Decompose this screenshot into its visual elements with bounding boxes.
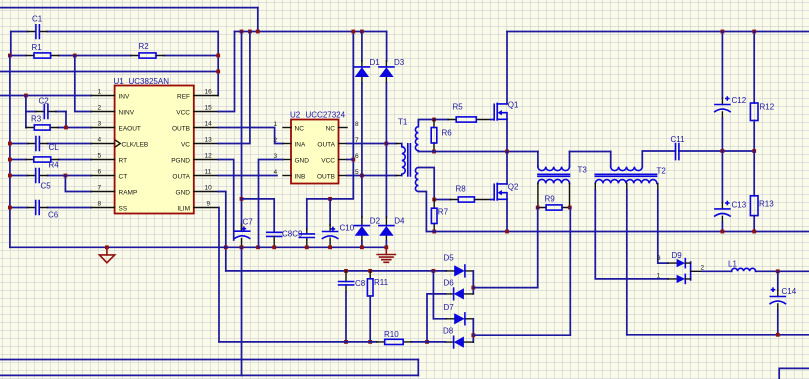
node: junction y=198.9 / C10 (328, 197, 332, 201)
node: junction INV / C2-R3 branch (24, 94, 28, 98)
U1 pin 10 GND (176, 184, 219, 196)
svg-text:Q2: Q2 (508, 182, 519, 191)
svg-text:15: 15 (205, 104, 213, 111)
svg-text:NC: NC (295, 125, 305, 132)
transformer T2 (595, 152, 666, 191)
svg-text:R9: R9 (545, 194, 556, 203)
svg-text:R6: R6 (442, 128, 453, 137)
wire: bottom rail B y=375.4 (0, 374, 418, 376)
node: junction L1 out / C14 (776, 269, 780, 273)
wire: D3 anode down to OUTA net (385, 83, 387, 144)
transistor Q2 (494, 182, 519, 200)
diode D6 (444, 279, 474, 300)
capacitor C13 (715, 151, 747, 232)
svg-text:INA: INA (295, 141, 307, 148)
svg-text:OUTB: OUTB (317, 173, 335, 180)
wire: snubber return y=341.9 (219, 341, 445, 343)
node: junction bus / Q1-Q2 (505, 150, 509, 154)
wire: T2 centre tap drop (626, 190, 628, 335)
U1 pin 7 RAMP (91, 184, 137, 196)
U1 pin 13 VC (181, 136, 218, 148)
wire: C1 left drop to R1 node (10, 32, 12, 56)
node: junction rail/R4 (8, 158, 12, 162)
node: junction rail/C5 (8, 174, 12, 178)
node: junction rail / x=241.5 riser (240, 30, 244, 34)
resistor R13 (750, 151, 774, 232)
node: junction y270.9/R11 (368, 269, 372, 273)
wire: ground/bypass bus y=247.3 (10, 246, 386, 248)
node: junction D4 / ground bus (384, 245, 388, 249)
node: junction y270.9/C8b (344, 269, 348, 273)
svg-text:UCC27324: UCC27324 (306, 111, 346, 120)
T1 secondary lower winding (415, 168, 418, 192)
node: junction bus/gnd triangle (105, 245, 109, 249)
T2 primary winding (610, 152, 612, 167)
svg-text:UC3825AN: UC3825AN (129, 77, 170, 86)
wire: PGND pin12 drop x=233.7 (218, 160, 234, 241)
svg-text:U2: U2 (290, 111, 301, 120)
node: junction bus231/R13 (752, 230, 756, 234)
wire: bus151 T3 to T2 (570, 151, 611, 153)
capacitor C9 (C8C9 pair right) (299, 199, 314, 247)
svg-text:GND: GND (295, 157, 310, 164)
node: junction OUTB / D1-D2 chain (360, 174, 364, 178)
T3 primary winding (537, 152, 539, 167)
svg-text:10: 10 (205, 184, 213, 191)
capacitor C10 (322, 199, 354, 247)
capacitor C8b (snubber) (339, 271, 366, 342)
wire: OUTA pin11 to U2 INB (218, 175, 277, 177)
node: junction +rail / D1 chain (360, 30, 364, 34)
T3 core (538, 174, 570, 176)
wire: bypass riser x=241.5 (rail to C7) (241, 32, 243, 231)
T1 secondary upper winding (415, 122, 418, 152)
svg-text:C8: C8 (355, 279, 366, 288)
diode D4 (379, 216, 405, 247)
node: junction D6 drop / y341.9 (425, 340, 429, 344)
svg-text:CT: CT (119, 173, 128, 180)
U2 pin 3 GND (274, 153, 310, 164)
svg-text:2: 2 (98, 104, 102, 111)
wire: ILIM pin9 drop x=219 (218, 208, 220, 342)
wire: C2/R3 left vertical x=25.9 (25, 96, 27, 128)
U2 pin 5 OUTB (317, 169, 359, 180)
capacitor C5 (10, 169, 91, 191)
svg-text:GND: GND (176, 189, 191, 196)
svg-text:6: 6 (355, 153, 359, 160)
U1 pin 12 PGND (171, 152, 218, 164)
wire: bypass branch y=198.9 to C8 (242, 199, 275, 232)
svg-text:L1: L1 (728, 259, 737, 268)
svg-text:VC: VC (181, 141, 190, 148)
wire: Q1 source drop to bus (506, 119, 508, 151)
svg-text:D1: D1 (370, 58, 381, 67)
svg-text:C12: C12 (732, 96, 747, 105)
diode D2 (354, 216, 380, 247)
node: junction OUTA / D3-D4 chain (384, 142, 388, 146)
node: junction D2 / ground bus (360, 245, 364, 249)
svg-text:C10: C10 (340, 224, 355, 233)
wire: U2 GND drop to bus (259, 160, 284, 248)
resistor R7 (431, 200, 448, 232)
T3 secondary winding (538, 179, 570, 183)
node: junction R9 right / T3 (568, 206, 572, 210)
svg-text:RAMP: RAMP (119, 189, 138, 196)
node: junction bus231/C13 (721, 230, 725, 234)
U1 pin 8 SS (91, 200, 128, 212)
U2 pin 2 INA (274, 137, 307, 148)
wire: U2 VCC stub to riser (347, 159, 353, 161)
node: junction bus/C7 (240, 245, 244, 249)
capacitor C6 (10, 201, 91, 220)
resistor R2 (75, 42, 218, 58)
svg-text:D3: D3 (394, 58, 405, 67)
node: junction R9 left / T3 (536, 206, 540, 210)
capacitor C7 (235, 217, 254, 247)
wire: D5/D6 link x=473.3 (472, 271, 474, 294)
node: junction C14 / lower rail (776, 333, 780, 337)
node: junction VCC riser / U2 pin6 (351, 158, 355, 162)
capacitor C11 (671, 135, 686, 160)
wire: output lower rail y=334.8 (627, 334, 809, 336)
svg-text:D7: D7 (444, 303, 455, 312)
node: junction y270.9/D7 branch (432, 269, 436, 273)
svg-text:14: 14 (205, 120, 213, 127)
wire: U2 OUTB to T1 primary bottom (347, 175, 396, 177)
U1 pin 16 REF (177, 88, 218, 100)
svg-text:T1: T1 (398, 117, 408, 126)
wire: T2 sec right to D9 pin3 (658, 190, 668, 263)
wire: VC pin13 riser x=249.9 (218, 32, 250, 144)
node: junction bus/U2 GND (256, 245, 260, 249)
U1 pin 11 OUTA (172, 168, 218, 180)
wire: REF vertical x=218.2 (C1 to pin16) (217, 32, 219, 96)
svg-text:OUTA: OUTA (317, 141, 335, 148)
svg-text:R8: R8 (456, 184, 467, 193)
svg-text:D9: D9 (672, 251, 683, 260)
node: junction rail/C6 (8, 206, 12, 210)
node: junction R1 left / left rail (8, 54, 12, 58)
T2 core (595, 174, 656, 176)
node: junction bus/C8 (272, 245, 276, 249)
U2 pin 8 NC (326, 121, 359, 132)
resistor R6 (431, 120, 452, 152)
resistor R10 (377, 330, 411, 344)
node: junction R6 bottom / bus (432, 150, 436, 154)
wire: Q2 drain riser to bus151 (506, 152, 508, 184)
node: junction rail/CL (8, 142, 12, 146)
svg-text:9: 9 (207, 200, 211, 207)
svg-text:T2: T2 (657, 166, 667, 175)
U1 pin 9 ILIM (177, 200, 218, 212)
svg-text:INV: INV (119, 93, 131, 100)
svg-text:U1: U1 (114, 77, 125, 86)
node: junction R1/R2/pin2 feed (73, 54, 77, 58)
svg-text:R10: R10 (384, 330, 399, 339)
svg-text:C2: C2 (39, 96, 50, 105)
wire: pin1 INV net from left edge (0, 95, 91, 97)
svg-text:C13: C13 (732, 200, 747, 209)
U2 pin 7 OUTA (317, 137, 359, 148)
svg-text:5: 5 (98, 152, 102, 159)
svg-text:R13: R13 (759, 199, 774, 208)
node: junction x=241.5 / y=198.9 branch (240, 197, 244, 201)
svg-text:Q1: Q1 (508, 100, 519, 109)
capacitor C14 (770, 271, 797, 335)
node: junction C5 right / RAMP branch (64, 174, 68, 178)
node: junction bus151/C12 (721, 149, 725, 153)
svg-text:11: 11 (205, 168, 212, 175)
svg-text:D4: D4 (394, 216, 405, 225)
wire: bottom rail A y=359.5 (0, 359, 418, 361)
node: junction bus/C9 (305, 245, 309, 249)
svg-text:D2: D2 (370, 216, 381, 225)
svg-text:1: 1 (98, 88, 102, 95)
svg-text:C11: C11 (671, 135, 686, 144)
wire: T2 sec left to D9 pin1 (595, 190, 668, 279)
svg-text:NINV: NINV (119, 109, 135, 116)
transformer T3 (538, 152, 587, 208)
node: junction REF/71.5 net (216, 70, 220, 74)
node: junction bus151/R12 (752, 149, 756, 153)
wire: T3 secondary right drop to D7/D8 node (569, 208, 571, 336)
wire: CT to RAMP jog x=65.4 (65, 176, 91, 192)
wire: bottom-right output corner (779, 368, 809, 379)
svg-text:1: 1 (274, 121, 278, 128)
transformer T1 gate-drive (396, 117, 434, 231)
svg-text:D6: D6 (444, 279, 455, 288)
svg-text:CLK/LEB: CLK/LEB (122, 141, 149, 148)
ground: earth symbol below D4 (377, 247, 395, 262)
U2 pin 6 VCC (321, 153, 359, 164)
wire: rectifier output y=287.6 (473, 287, 537, 289)
svg-text:R11: R11 (374, 278, 389, 287)
svg-text:R12: R12 (760, 102, 775, 111)
svg-text:C7: C7 (243, 217, 254, 226)
svg-text:13: 13 (205, 136, 213, 143)
wire: D1 anode down to OUTB net (361, 83, 363, 176)
svg-text:4: 4 (274, 169, 278, 176)
T1 primary winding (396, 144, 402, 176)
svg-text:SS: SS (119, 205, 128, 212)
svg-text:OUTB: OUTB (172, 125, 190, 132)
wire: rail A to rail B link (417, 360, 419, 376)
node: junction rail / VCC riser (351, 30, 355, 34)
diode D1 (354, 32, 380, 84)
U1 pin 1 INV (91, 88, 130, 100)
svg-text:3: 3 (657, 255, 661, 262)
wire: top horizontal net y=7.6 (0, 7, 258, 9)
transistor Q1 (494, 100, 519, 120)
resistor R1 (10, 43, 75, 58)
wire: D6 left drop to y=341.9 (427, 294, 445, 342)
diode D8 (443, 326, 473, 348)
svg-text:4: 4 (98, 136, 102, 143)
svg-text:6: 6 (98, 168, 102, 175)
wire: bypass riser lower x=241.5 (241, 247, 243, 375)
wire: rectifier feed y=270.9 (226, 270, 446, 272)
svg-text:OUTA: OUTA (172, 173, 190, 180)
U1 pin 2 NINV (91, 104, 134, 116)
resistor R9 (538, 194, 570, 210)
svg-text:C5: C5 (41, 182, 52, 191)
op-amp U1 UC3825AN body (114, 77, 194, 214)
node: junction rail / VC riser (248, 30, 252, 34)
svg-text:PGND: PGND (171, 157, 190, 164)
wire: OUTB net down to D2 (361, 176, 363, 218)
ground: signal ground triangle near U1 (99, 247, 114, 262)
svg-text:RT: RT (119, 157, 128, 164)
wire: U2 OUTA to T1 primary top (347, 143, 396, 145)
svg-text:D5: D5 (444, 253, 455, 262)
svg-text:2: 2 (274, 137, 278, 144)
wire: rectifier output y=335.2 (473, 334, 570, 336)
resistor R11 (367, 271, 388, 342)
svg-text:CL: CL (49, 143, 60, 152)
svg-text:8: 8 (98, 200, 102, 207)
U2 pin 4 INB (274, 169, 306, 180)
wire: Q2 source drop to bus231 (506, 199, 508, 231)
wire: +supply rail right y=31.5 (507, 31, 809, 33)
wire: VCC net riser x=353.3 (rail to U2 pin6 and caps) (307, 32, 354, 199)
wire: D7 branch x=433.4 (433, 271, 446, 319)
svg-text:C6: C6 (48, 210, 59, 219)
diode D3 (379, 58, 405, 83)
svg-text:VCC: VCC (321, 157, 335, 164)
svg-text:ILIM: ILIM (177, 205, 190, 212)
U1 pin 6 CT (91, 168, 127, 180)
wire: vertical link top-line to +rail at x=257.8 (257, 8, 259, 32)
svg-text:REF: REF (177, 93, 190, 100)
U1 pin 15 VCC (176, 104, 218, 116)
node: junction D5-D6 / output (471, 286, 475, 290)
capacitor C8 (C8C9 pair left) (267, 229, 303, 247)
svg-text:7: 7 (98, 184, 102, 191)
node: junction D7-D8 / output (471, 333, 475, 337)
node: junction T1 sec-top / R5 / R6 (432, 118, 436, 122)
node: junction R7 bottom / bus231 (432, 230, 436, 234)
capacitor C1 (11, 15, 218, 39)
wire: T3 secondary left drop to D5/D6 node (537, 208, 539, 288)
wire: VCC pin15 riser to +rail (218, 32, 234, 112)
svg-text:R1: R1 (32, 43, 43, 52)
capacitor CL (10, 137, 91, 152)
wire: +rail corner down to D3 (386, 32, 388, 62)
node: junction rail / top-line link (256, 30, 260, 34)
resistor R8 (434, 184, 494, 202)
svg-text:8: 8 (355, 121, 359, 128)
diode D9 dual common-cathode (657, 251, 705, 284)
resistor R4 (10, 157, 91, 169)
svg-text:3: 3 (98, 120, 102, 127)
capacitor C2 (26, 96, 66, 118)
svg-text:R4: R4 (49, 160, 60, 169)
node: junction T1 sec-bot / R8 / R7 (432, 198, 436, 202)
wire: left feedback rail x=9.9 (9, 56, 11, 248)
resistor R5 (434, 102, 494, 122)
T1 core (408, 144, 411, 176)
svg-text:VCC: VCC (176, 109, 190, 116)
inductor L1 (702, 259, 809, 271)
node: junction R3/C2 right to pin3 EAOUT (64, 126, 68, 130)
wire: switching bus y=151.5 (T1 sec to T3) (418, 151, 538, 153)
svg-text:R2: R2 (139, 42, 150, 51)
svg-text:C14: C14 (782, 287, 797, 296)
svg-text:R7: R7 (438, 208, 449, 217)
node: junction rail/R12 (752, 30, 756, 34)
svg-text:1: 1 (657, 272, 661, 279)
U1 pin 5 RT (91, 152, 127, 164)
svg-text:INB: INB (295, 173, 306, 180)
wire: horizontal net y=71.5 from left edge (0, 71, 218, 73)
svg-text:D8: D8 (443, 326, 454, 335)
capacitor C12 (715, 32, 747, 152)
resistor R3 (26, 114, 91, 130)
resistor R12 (750, 32, 774, 152)
svg-text:12: 12 (205, 152, 213, 159)
svg-text:16: 16 (205, 88, 213, 95)
svg-text:R5: R5 (453, 102, 464, 111)
wire: R1-R2 node down to pin2 NINV (75, 56, 91, 112)
wire: Q1 drain riser to +rail (506, 32, 508, 104)
op-amp U2 UCC27324 body (290, 111, 346, 184)
U1 pin 3 EAOUT (91, 120, 141, 132)
U1 pin 4 CLK/LEB (91, 136, 148, 148)
node: junction C8b / y341.9 (344, 340, 348, 344)
node: junction rail/C12 (721, 30, 725, 34)
diode D7 (444, 303, 474, 325)
wire: +supply rail left y=31.5 (235, 31, 387, 33)
wire: D7/D8 link x=473.3 (472, 319, 474, 342)
svg-text:EAOUT: EAOUT (119, 125, 141, 132)
U2 pin 1 NC (274, 121, 305, 132)
wire: OUTA net down to D4 (385, 144, 387, 218)
diode D5 (444, 253, 474, 277)
T2 secondary winding (centre-tapped) (595, 180, 657, 184)
svg-text:C1: C1 (32, 15, 43, 24)
node: junction bus231 / Q2 (505, 230, 509, 234)
node: junction REF/R2 (216, 54, 220, 58)
U1 pin 14 OUTB (172, 120, 218, 132)
wire: OUTB pin14 to U2 INA (218, 128, 283, 144)
svg-text:R3: R3 (31, 114, 42, 123)
node: junction GND drop / ground bus (224, 245, 228, 249)
node: junction bus/C10 (328, 245, 332, 249)
node: junction R11 / y341.9 (368, 340, 372, 344)
svg-text:NC: NC (326, 125, 336, 132)
wire: C2 right drop to R3 right node (65, 112, 67, 128)
wire: secondary bus y=151 right (642, 150, 754, 152)
svg-text:T3: T3 (578, 166, 588, 175)
wire: return bus y=231.5 (426, 231, 809, 233)
wire: GND pin10 drop to D5 feed (218, 192, 226, 271)
